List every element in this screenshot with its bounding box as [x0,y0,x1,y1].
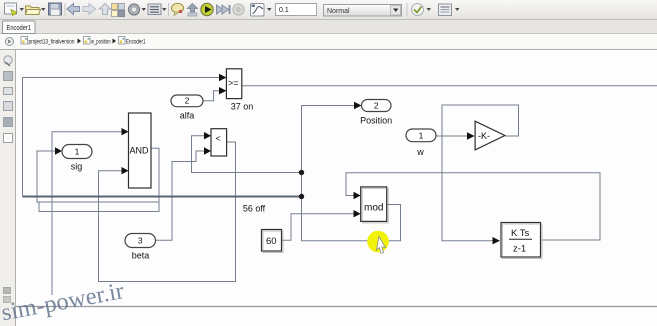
svg-text:60: 60 [266,236,277,247]
svg-text:Normal: Normal [327,8,350,15]
svg-text:Encoder1: Encoder1 [126,39,146,46]
svg-text:K Ts: K Ts [511,228,530,239]
svg-text:project13_finalversion: project13_finalversion [29,39,75,46]
svg-text:beta: beta [132,251,150,261]
svg-text:<: < [216,134,221,144]
svg-text:3: 3 [138,236,143,246]
svg-text:Position: Position [360,116,392,126]
svg-text:56 off: 56 off [243,204,266,214]
svg-text:2: 2 [185,96,190,106]
svg-text:AND: AND [130,146,150,156]
svg-text:37 on: 37 on [231,102,254,112]
svg-text:sig: sig [71,162,83,172]
svg-text:1: 1 [419,130,424,140]
svg-text:z-1: z-1 [513,244,526,255]
svg-text:Encoder1: Encoder1 [7,25,32,32]
svg-text:>=: >= [228,78,239,88]
svg-text:alfa: alfa [180,111,195,121]
svg-text:2: 2 [374,101,379,111]
svg-text:0.1: 0.1 [279,7,289,14]
svg-text:w: w [416,147,424,157]
svg-text:w_position: w_position [90,39,110,46]
svg-text:-K-: -K- [478,131,490,141]
svg-text:1: 1 [75,147,80,157]
svg-text:mod: mod [364,203,383,214]
